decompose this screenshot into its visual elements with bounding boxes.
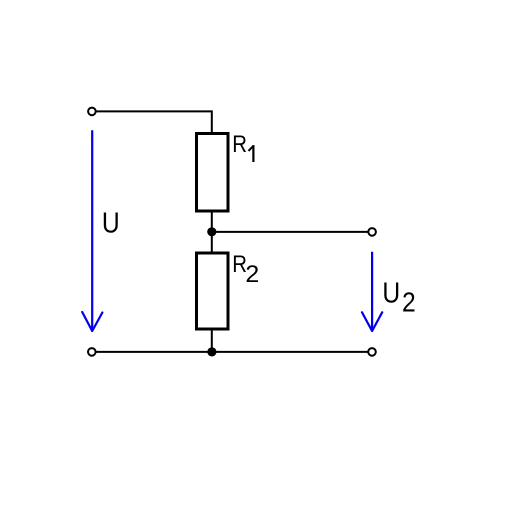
svg-text:R: R bbox=[232, 131, 247, 158]
wire: bottom rail from left terminal to right terminal bbox=[95, 351, 368, 353]
voltage arrow U2: shaft bbox=[371, 252, 373, 330]
wire: node A down to R2 top bbox=[211, 232, 213, 253]
label U2 (output voltage) bbox=[382, 277, 415, 318]
terminal: top-left input (open circle) bbox=[88, 108, 96, 116]
resistor R1 bbox=[197, 134, 229, 212]
wire: top horizontal from input terminal to R1 branch bbox=[95, 110, 212, 112]
label R2 bbox=[232, 250, 259, 287]
resistor R2 bbox=[197, 253, 229, 329]
wire: R2 bottom to node B bbox=[211, 329, 213, 352]
wire: vertical drop into R1 top bbox=[211, 110, 213, 133]
label R1 bbox=[232, 131, 253, 162]
terminal: bottom-right (open circle) bbox=[368, 348, 376, 356]
terminal: bottom-left (open circle) bbox=[88, 348, 96, 356]
voltage arrow U: open arrowhead bbox=[82, 312, 102, 331]
node B: bottom junction bbox=[207, 347, 216, 356]
node A: junction between R1 and R2 bbox=[207, 227, 216, 236]
voltage arrow U: shaft bbox=[91, 130, 93, 330]
voltage arrow U2: open arrowhead bbox=[362, 312, 382, 331]
wire: R1 bottom to node A bbox=[211, 211, 213, 232]
svg-text:2: 2 bbox=[245, 261, 259, 288]
terminal: right middle output (open circle) bbox=[368, 228, 376, 236]
svg-text:U: U bbox=[102, 206, 120, 238]
svg-text:2: 2 bbox=[402, 286, 416, 318]
svg-text:U: U bbox=[382, 277, 400, 309]
wire: node A to right mid terminal bbox=[212, 231, 368, 233]
